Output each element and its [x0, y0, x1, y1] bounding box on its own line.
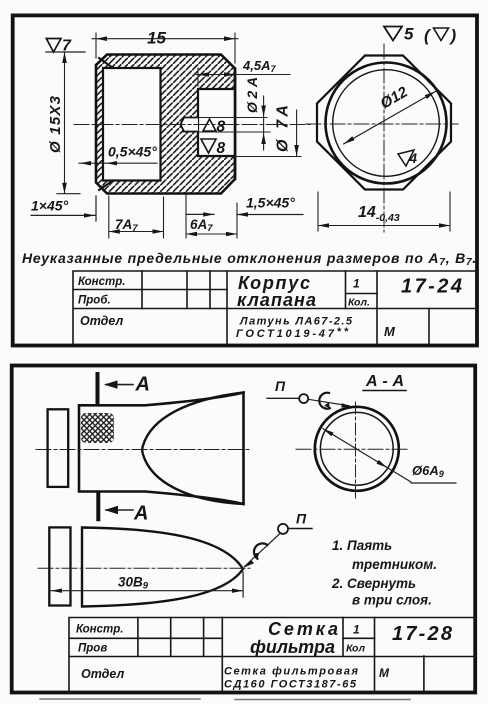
svg-text:фильтра: фильтра [250, 637, 335, 657]
svg-text:5: 5 [404, 25, 414, 44]
svg-text:третником.: третником. [352, 557, 437, 572]
svg-text:Пров: Пров [78, 643, 107, 655]
svg-text:Ø2А: Ø2А [244, 77, 260, 113]
svg-text:Неуказанные предельные отклоне: Неуказанные предельные отклонения размер… [22, 250, 477, 268]
svg-text:А: А [133, 503, 148, 525]
svg-text:П: П [296, 511, 307, 527]
svg-text:Сетка фильтровая: Сетка фильтровая [224, 666, 359, 678]
svg-text:6А7: 6А7 [190, 217, 213, 234]
svg-text:Ø 7А: Ø 7А [275, 105, 292, 152]
svg-text:Констр.: Констр. [78, 276, 125, 288]
svg-text:М: М [384, 324, 396, 339]
svg-text:8: 8 [217, 140, 226, 157]
svg-text:0,5×45°: 0,5×45° [108, 144, 157, 160]
svg-text:1,5×45°: 1,5×45° [246, 195, 295, 211]
svg-text:8: 8 [217, 119, 226, 136]
svg-text:СД160 ГОСТ3187-65: СД160 ГОСТ3187-65 [224, 679, 357, 691]
svg-text:15: 15 [147, 29, 166, 48]
svg-text:Сетка: Сетка [268, 619, 338, 639]
svg-text:17-28: 17-28 [392, 623, 453, 645]
svg-text:А: А [135, 374, 150, 396]
svg-text:17-24: 17-24 [401, 276, 462, 298]
svg-text:7А7: 7А7 [115, 217, 138, 234]
svg-text:1: 1 [353, 277, 360, 291]
svg-text:): ) [449, 26, 457, 45]
svg-text:М: М [379, 666, 390, 680]
svg-text:30В9: 30В9 [118, 575, 149, 592]
svg-text:Кол.: Кол. [348, 297, 370, 309]
svg-text:клапана: клапана [237, 290, 316, 310]
svg-text:А-А: А-А [365, 373, 404, 390]
svg-text:1. Паять: 1. Паять [332, 538, 392, 553]
svg-text:1×45°: 1×45° [31, 198, 69, 214]
svg-text:П: П [275, 378, 286, 394]
svg-text:4,5А7: 4,5А7 [242, 58, 276, 74]
svg-text:в три слоя.: в три слоя. [352, 593, 432, 608]
svg-text:Ø 15X3: Ø 15X3 [47, 95, 64, 153]
svg-text:Ø6А9: Ø6А9 [412, 463, 444, 479]
svg-text:1: 1 [353, 623, 360, 637]
svg-text:Отдел: Отдел [80, 314, 124, 328]
svg-text:Кол: Кол [346, 643, 365, 655]
svg-text:Констр.: Констр. [76, 624, 123, 636]
svg-text:Отдел: Отдел [81, 667, 125, 681]
svg-text:14-0,43: 14-0,43 [358, 204, 400, 224]
svg-text:(: ( [424, 26, 432, 45]
svg-text:2. Свернуть: 2. Свернуть [331, 576, 416, 591]
svg-text:ГОСТ1019-47**: ГОСТ1019-47** [236, 326, 349, 340]
svg-text:Проб.: Проб. [78, 295, 111, 307]
svg-text:4: 4 [409, 151, 418, 166]
